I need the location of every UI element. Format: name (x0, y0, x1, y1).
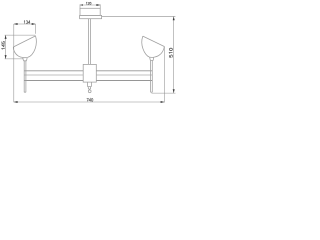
dimension lines (5, 4, 176, 102)
134 dim (14, 24, 36, 34)
arrow 510 top (173, 16, 175, 20)
label 510 (169, 48, 172, 57)
left shade bottom (22, 56, 28, 58)
right stem (151, 61, 153, 93)
label 145 (2, 41, 5, 49)
arrow 740 left (14, 101, 18, 103)
740 dim (14, 101, 165, 103)
right socket (150, 57, 154, 60)
hub finial neck (88, 87, 90, 90)
145 dim (5, 35, 36, 59)
right shade bottom (149, 56, 154, 58)
upper bar top edge (24, 70, 152, 72)
right shade left side (142, 36, 149, 57)
right 740 extension (163, 47, 165, 103)
arrow 145 bottom (5, 55, 7, 59)
arrow 134 left (14, 23, 18, 25)
arrow 120 right (96, 4, 100, 6)
stem (89, 19, 91, 65)
hub finial collar (88, 82, 92, 87)
510 top extension (102, 15, 176, 17)
arrow 740 right (161, 101, 165, 103)
arrow 120 left (80, 4, 83, 6)
left stem (24, 61, 26, 92)
arrow 145 top (5, 35, 7, 39)
label 134 (24, 21, 30, 24)
canopy upper (80, 8, 100, 15)
right shade right side (154, 47, 164, 58)
right shade rim (143, 36, 165, 46)
510 dim (173, 16, 175, 93)
left long extension (13, 24, 15, 102)
arrow 134 right (32, 23, 36, 25)
arrow 510 bottom (173, 89, 175, 93)
label 740 (87, 98, 93, 101)
left shade left side (13, 47, 22, 57)
arrows (5, 4, 175, 103)
lower rod (24, 80, 152, 82)
left shade right side (28, 36, 37, 57)
hub (83, 64, 96, 82)
left shade rim (13, 36, 35, 47)
left socket (23, 58, 28, 61)
finial knob (88, 90, 91, 93)
upper bar bottom edge (24, 74, 152, 76)
label 120 (86, 2, 91, 4)
510 bottom extension (152, 92, 176, 94)
canopy lower (80, 15, 102, 18)
120 dim (80, 4, 100, 8)
